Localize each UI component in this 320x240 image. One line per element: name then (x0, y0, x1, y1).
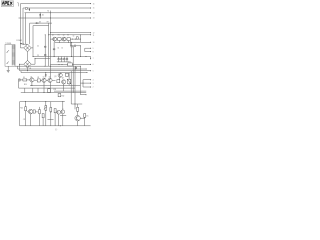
svg-text:REG: REG (68, 62, 71, 64)
capacitor bank C6 (63, 57, 65, 62)
svg-text:D1: D1 (42, 14, 44, 16)
diode D4 below bus (45, 73, 47, 78)
svg-text:Q3: Q3 (54, 76, 56, 78)
wire q7 down (63, 84, 65, 91)
svg-text:Q2: Q2 (63, 34, 65, 36)
wire q5 down (43, 82, 45, 92)
wire BR1-BR2 link (27, 52, 29, 61)
wire BR2 bottom stub (27, 68, 29, 71)
wire bus 58.4 (35, 57, 50, 59)
node br2 bottom (26, 69, 29, 72)
svg-text:74: 74 (47, 10, 49, 12)
node rail42 r1 (58, 41, 61, 44)
transformer winding rungs (12, 45, 15, 65)
svg-text:C4: C4 (57, 47, 59, 49)
wire bridge feed jog (23, 43, 28, 45)
wire hook at 91 (90, 57, 92, 59)
bottom border (20, 125, 91, 127)
wire cap bottom rail (57, 61, 68, 63)
svg-text:12: 12 (93, 32, 95, 34)
wire terminal line 5 (50, 32, 90, 34)
transistor Q6 (48, 78, 52, 82)
svg-text:5: 5 (93, 70, 94, 72)
svg-text:T1 P-8380: T1 P-8380 (5, 43, 11, 45)
wire r2 stub (68, 41, 70, 43)
transistor Q10 (75, 116, 80, 121)
node bus726 end (86, 71, 89, 74)
wire BR1 right jog (31, 47, 33, 49)
svg-text:C6: C6 (73, 35, 75, 37)
resistor R6 (57, 80, 60, 83)
wire q11 down (58, 114, 60, 126)
bottom box outline (20, 102, 91, 126)
node term9 (90, 51, 91, 52)
node r20 mid (49, 111, 52, 114)
svg-text:R10: R10 (24, 84, 27, 86)
wire x80.4 down (79, 66, 81, 83)
wire terminal 48.2 (85, 47, 91, 49)
svg-text:C2: C2 (37, 45, 39, 47)
node bus4/D1 (39, 17, 42, 20)
node hook end (90, 58, 91, 59)
wire row2 (19, 79, 30, 81)
svg-text:R7: R7 (47, 21, 49, 23)
wire q4 down (31, 82, 33, 86)
wire bus 64.4 right (72, 63, 90, 65)
SCR D6 vertical arrow (29, 8, 31, 11)
node bus 66 x45 (44, 65, 47, 68)
resistor R1 (58, 38, 62, 41)
svg-text:4: 4 (93, 79, 94, 81)
node c1 bottom (70, 55, 73, 58)
bottom row: capacitor C9 (19, 79, 21, 81)
svg-text:6: 6 (93, 64, 94, 66)
arrow AC feed b (22, 44, 24, 46)
svg-text:14: 14 (93, 13, 95, 15)
wire cap D vert upper (53, 42, 55, 48)
node box top end (61, 100, 64, 103)
arrow AC feed a (20, 43, 22, 45)
wire emitter rail 42.3 (55, 41, 91, 43)
wire q9 stubs (60, 102, 66, 126)
wire top bus 4 (19, 17, 91, 19)
node term5 start (49, 31, 52, 34)
wire bus 72.6 (21, 72, 87, 74)
node term7 (90, 42, 91, 43)
wire relay stub (68, 84, 70, 86)
transistor Q3 (58, 73, 62, 78)
node x45 top (44, 33, 47, 36)
resistor R14 (39, 110, 41, 114)
wire left col down (18, 81, 20, 88)
svg-text:11: 11 (93, 35, 95, 37)
terminal line 79.7 (83, 79, 91, 81)
svg-text:R1: R1 (58, 34, 60, 36)
capacitor C6s series plates (74, 45, 75, 47)
terminal line 83.1 (80, 82, 90, 84)
svg-text:R13: R13 (20, 107, 23, 109)
small box row right (76, 37, 78, 39)
wire bus 72.6 left hook (20, 71, 22, 73)
label conn bracket (17, 3, 18, 7)
resistor R12 below (58, 94, 61, 97)
transistor Q1 (53, 37, 57, 41)
node q9 (61, 108, 64, 111)
node bus644 b (61, 63, 64, 66)
wire top bus 3 (25, 12, 91, 14)
transistor Q11 small (57, 110, 61, 114)
wire BR2 vert jog (34, 58, 36, 64)
switch S1 inside box (7, 50, 9, 52)
svg-text:R12: R12 (62, 95, 65, 97)
wire ground stub (7, 66, 9, 70)
wire x71.2 drop (70, 71, 72, 104)
svg-text:C5: C5 (61, 47, 63, 49)
wire bus 70.7 (20, 70, 91, 72)
wire jog 104 (71, 103, 82, 105)
node row a (71, 38, 74, 41)
transistor Q4 (30, 78, 34, 82)
wire x69.1 drop (68, 73, 70, 80)
node bus69 end (85, 68, 88, 71)
resistor R19 right of q8 (33, 110, 35, 113)
svg-text:Q1: Q1 (52, 34, 54, 36)
node jog104 a (74, 103, 77, 106)
svg-text:Q7: Q7 (62, 78, 64, 80)
wire row 85.5 (30, 85, 80, 87)
node term12 (90, 79, 91, 80)
wire BR1 left feed (21, 47, 24, 49)
svg-text:D3: D3 (39, 21, 41, 23)
node term14 (90, 87, 91, 88)
label row Q1 R1 Q2 R2 (52, 34, 69, 36)
node bus66 end (79, 65, 82, 68)
node rail42 r2 (67, 41, 70, 44)
svg-text:8: 8 (93, 51, 94, 53)
wire q10 stubs (78, 111, 85, 126)
wire left vertical bus (20, 4, 22, 48)
wire q8 base (27, 111, 28, 113)
wire vertical bus 2 (22, 8, 24, 44)
node bus4 x50 (49, 17, 52, 20)
node c6s (79, 44, 82, 47)
svg-text:9: 9 (93, 48, 94, 50)
capacitor C2 plates (44, 45, 46, 48)
node row34.8 start (47, 33, 50, 36)
wire vertical x48.6 (48, 23, 50, 66)
wire stub 24.8 (24, 88, 26, 93)
wire top bus 1 (21, 3, 91, 5)
wire BR2 right jog (31, 63, 35, 65)
wire bus 69 left hook (17, 66, 19, 69)
wire x80.4 lower drop (79, 83, 81, 95)
resistor R4 (23, 79, 27, 81)
node row b (74, 38, 77, 41)
fuse F1 on bus 2 (25, 8, 27, 10)
node term2 (90, 8, 91, 9)
wire x73.2 drop (72, 46, 74, 93)
wire vertical x19.5 (19, 64, 21, 71)
transistor Q8 (28, 109, 33, 114)
capacitor bank C7 (66, 57, 68, 62)
node term6 (90, 34, 91, 35)
wire vertical x33 (32, 26, 34, 57)
wire vertical x45.2 (44, 35, 46, 66)
capacitor C3 plates (44, 54, 46, 57)
regulator U1 (68, 63, 73, 66)
wire vertical x83 (82, 80, 84, 87)
transistor Q5 (42, 78, 46, 82)
diode D3 on feedback line (36, 22, 38, 24)
wire row line 34.8 (49, 34, 91, 36)
wire vertical x80.4 (79, 35, 81, 43)
bridge rectifier BR2 (24, 60, 32, 68)
wire component row center (50, 38, 80, 40)
node bus 66 x50 (49, 65, 52, 68)
capacitor bank C4 (58, 57, 60, 62)
node r15 top (44, 100, 47, 103)
wire terminal 51.6 (85, 51, 91, 53)
wire top bus 2 (23, 7, 91, 9)
wire r13 stubs (25, 102, 27, 126)
wire R2 output corner (70, 41, 80, 57)
wire x75 drop (74, 69, 76, 109)
resistor R16 (42, 114, 44, 118)
wire row connectors (34, 79, 56, 81)
wire bus 91.1 (54, 90, 86, 92)
resistor R18 (77, 107, 79, 111)
wire x77.6 upper stub (77, 104, 79, 107)
node bus crossing a (32, 55, 35, 58)
wire stub 38 (37, 88, 39, 93)
wire r1 stub (58, 41, 60, 43)
vertical feeds into lower cluster (59, 46, 75, 110)
pot R15 (44, 106, 47, 111)
resistor R5 (37, 79, 40, 82)
node term4 (90, 18, 91, 19)
node term5 (90, 32, 91, 33)
node term13 (90, 83, 91, 84)
diode D1 (39, 13, 41, 18)
wire x59.3 drop (58, 77, 60, 80)
wire stub 32.8 (32, 88, 34, 93)
svg-text:7: 7 (93, 58, 94, 60)
transistor Q7 (62, 80, 66, 84)
svg-text:10: 10 (93, 42, 95, 44)
svg-text:13: 13 (93, 18, 95, 20)
resistor R2 (67, 38, 70, 41)
wire vertical x50.4 long (49, 11, 51, 93)
APEX logo box (1, 1, 13, 7)
svg-text:15: 15 (93, 8, 95, 10)
terminal line 87 (83, 86, 91, 88)
wire r20 stubs (50, 102, 52, 126)
wire bus 64.4 left (50, 63, 67, 65)
node term8 (90, 48, 91, 49)
wire r15 stubs (45, 102, 47, 126)
svg-text:R2: R2 (67, 34, 69, 36)
svg-text:C11: C11 (23, 119, 26, 121)
svg-text:2: 2 (93, 87, 94, 89)
node term35 (79, 33, 82, 36)
wire cap D vert lower (53, 50, 55, 57)
resistor R8 between rails (48, 89, 51, 93)
svg-text:R19: R19 (36, 111, 39, 113)
node term11 (90, 70, 91, 71)
node term3 (90, 12, 91, 13)
label bottom row refs (23, 76, 51, 79)
node d4 (44, 71, 47, 74)
bridge rectifier BR1 (24, 44, 32, 52)
switch S2 inside box (7, 62, 9, 64)
transistor Q9 cluster (61, 110, 65, 114)
capacitor bank C5 (60, 57, 62, 62)
relay K1 box (67, 79, 70, 84)
node jog end (85, 93, 88, 96)
svg-text:16: 16 (93, 3, 95, 5)
svg-text:D5: D5 (86, 116, 88, 118)
node d3 (34, 22, 37, 25)
wire row 88.1 (19, 87, 75, 89)
node q4 (30, 84, 33, 87)
svg-text:R9: R9 (30, 68, 32, 70)
node term10 (90, 64, 91, 65)
wire feedback drop left (29, 23, 31, 44)
ground (7, 70, 10, 72)
transistor Q2 (62, 37, 66, 41)
wire r14 stubs (38, 107, 40, 126)
node r13 top (24, 100, 27, 103)
wire vertical x84.8 (84, 48, 86, 51)
wire r17 down (54, 113, 56, 126)
node c6s bus (79, 55, 82, 58)
resistor R13 (25, 107, 27, 111)
capacitor CD plates (53, 48, 55, 51)
node br2 left (18, 63, 21, 66)
capacitor C1 plates (71, 46, 73, 47)
node bus92 x44 (43, 91, 46, 94)
node c1 top (70, 41, 73, 44)
wire feedback line a (30, 22, 52, 24)
diode D5 (84, 114, 86, 118)
node cd bottom (53, 55, 56, 58)
capacitor C8 (75, 66, 77, 69)
resistor R20 (50, 108, 52, 112)
node c8 (74, 68, 77, 71)
transformer T1 box (5, 44, 15, 66)
wire bus 66.2 (15, 65, 80, 67)
resistor R17 (54, 109, 56, 113)
node bus3/D1 (39, 11, 42, 14)
node term83 (82, 82, 85, 85)
svg-text:( ): ( ) (55, 129, 57, 131)
wire bus 56.5 (33, 56, 91, 58)
wire vertical bus 3 (25, 13, 27, 44)
wire jog 94.7 (80, 94, 86, 96)
wire BR2 left feed (20, 63, 24, 65)
terminal dots right edge (90, 3, 91, 87)
svg-text:3: 3 (93, 83, 94, 85)
wire bus 69 (18, 68, 87, 70)
node row c (79, 38, 82, 41)
node bus3 x50 (49, 11, 52, 14)
node bus crossing b (34, 57, 37, 60)
wire r16 down (42, 118, 44, 126)
resistor R3 (65, 73, 68, 76)
wire mid jog (48, 119, 54, 121)
node bus644 a (58, 63, 61, 66)
wire cap C1 lower stub (71, 47, 73, 56)
node bus565 x86 (85, 55, 88, 58)
wire feedback line b (33, 25, 49, 27)
wire q8 down (30, 114, 32, 126)
wire bus 92.6 (21, 92, 86, 94)
wire q1 stub (54, 41, 56, 42)
wire cap C1 stub (71, 42, 73, 46)
node bottom line tick (60, 125, 61, 126)
node term1 (90, 3, 91, 4)
